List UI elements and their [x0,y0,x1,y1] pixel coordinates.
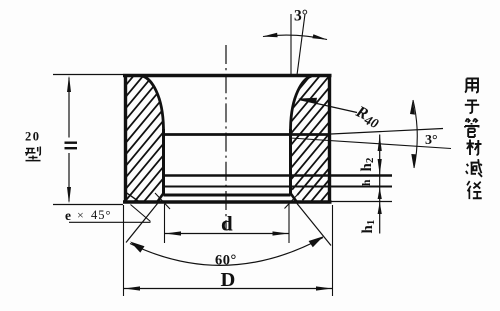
svg-text:3°: 3° [294,8,308,25]
leader e x 45 [69,221,151,223]
60 arc right arrowhead [309,236,324,247]
dimension H: label = [65,142,78,144]
h dimension vertical line [379,135,381,234]
cone extension line right (60 deg) [297,204,331,246]
R40 leader arrow [298,98,317,104]
svg-text:3°: 3° [425,133,438,148]
svg-text:R40: R40 [351,101,383,131]
用 [465,79,478,93]
60 arc left arrowhead [130,242,145,253]
3 deg top: vertical reference line [290,14,292,75]
svg-text:e: e [65,208,71,223]
60 deg arc [130,238,323,266]
left exit cone wall [157,193,165,204]
dimension D: line [124,288,333,290]
chamfer small right inner [285,193,300,209]
svg-text:×: × [77,208,84,222]
right margin vertical text 用于管材减径 (drawn strokes) [465,79,482,200]
dimension d: line [165,233,290,235]
管 [465,119,479,138]
dimension H: line [68,78,70,138]
die outline: top face [123,74,332,77]
3 deg right: top arrowhead [410,100,415,115]
right flare curve R40 [291,76,312,131]
bore line h2 bottom [164,174,393,177]
dimension H: bottom arrow [67,187,71,204]
svg-text:d: d [221,212,233,236]
cone extension line left (60 deg) [126,204,158,243]
right bore wall [289,129,292,194]
die outline: right edge [328,74,331,204]
bottom face extension line right [332,201,393,203]
dimension d: arrows [165,231,181,235]
dimension d: extension lines [164,204,166,243]
bore transition line top (flare end) [164,133,332,136]
left flare curve R40 [143,76,164,131]
dimension H: top arrow [67,76,71,93]
hatching left block [8,65,287,215]
3 deg right: arc [413,100,417,168]
right exit cone wall [290,193,298,204]
bore transition line extension to right [331,129,443,135]
left bore wall [162,129,165,194]
die outline: left edge [124,74,127,204]
bore line h bottom [164,186,393,188]
svg-text:45°: 45° [91,208,112,222]
svg-text:h2: h2 [359,157,376,171]
chamfer line outer left [126,193,141,204]
svg-text:20: 20 [25,130,41,144]
h bottom arrow [378,188,382,200]
center line (dash-dot) [225,45,227,230]
3 deg top: left arrowhead [263,33,278,37]
3 deg top: right arrowhead [312,34,327,39]
3 deg top: slanted line [297,14,305,75]
bore line cone top [164,194,291,197]
chamfer small left inner [155,193,170,209]
svg-text:h: h [361,179,373,186]
label 型 (drawn) [25,147,41,161]
h2 top arrow [378,135,382,151]
top face extension line left [53,74,123,76]
bottom face extension line left [53,204,123,206]
3 deg top: arc [263,35,327,39]
svg-text:D: D [221,269,236,291]
h2 bottom arrow [378,159,382,175]
svg-text:h1: h1 [360,220,377,234]
h1 arrow [378,202,382,214]
减 [466,159,482,177]
径 [467,181,482,199]
svg-text:60°: 60° [215,253,237,269]
hatching right block [175,65,454,215]
dimension D: extension lines [123,205,125,296]
3 deg right: slanted ray [291,138,452,149]
dimension D: arrows [124,286,140,290]
材 [467,140,482,156]
3 deg right: bottom arrowhead [411,154,416,168]
die outline: bottom face [123,200,332,203]
于 [465,101,479,114]
